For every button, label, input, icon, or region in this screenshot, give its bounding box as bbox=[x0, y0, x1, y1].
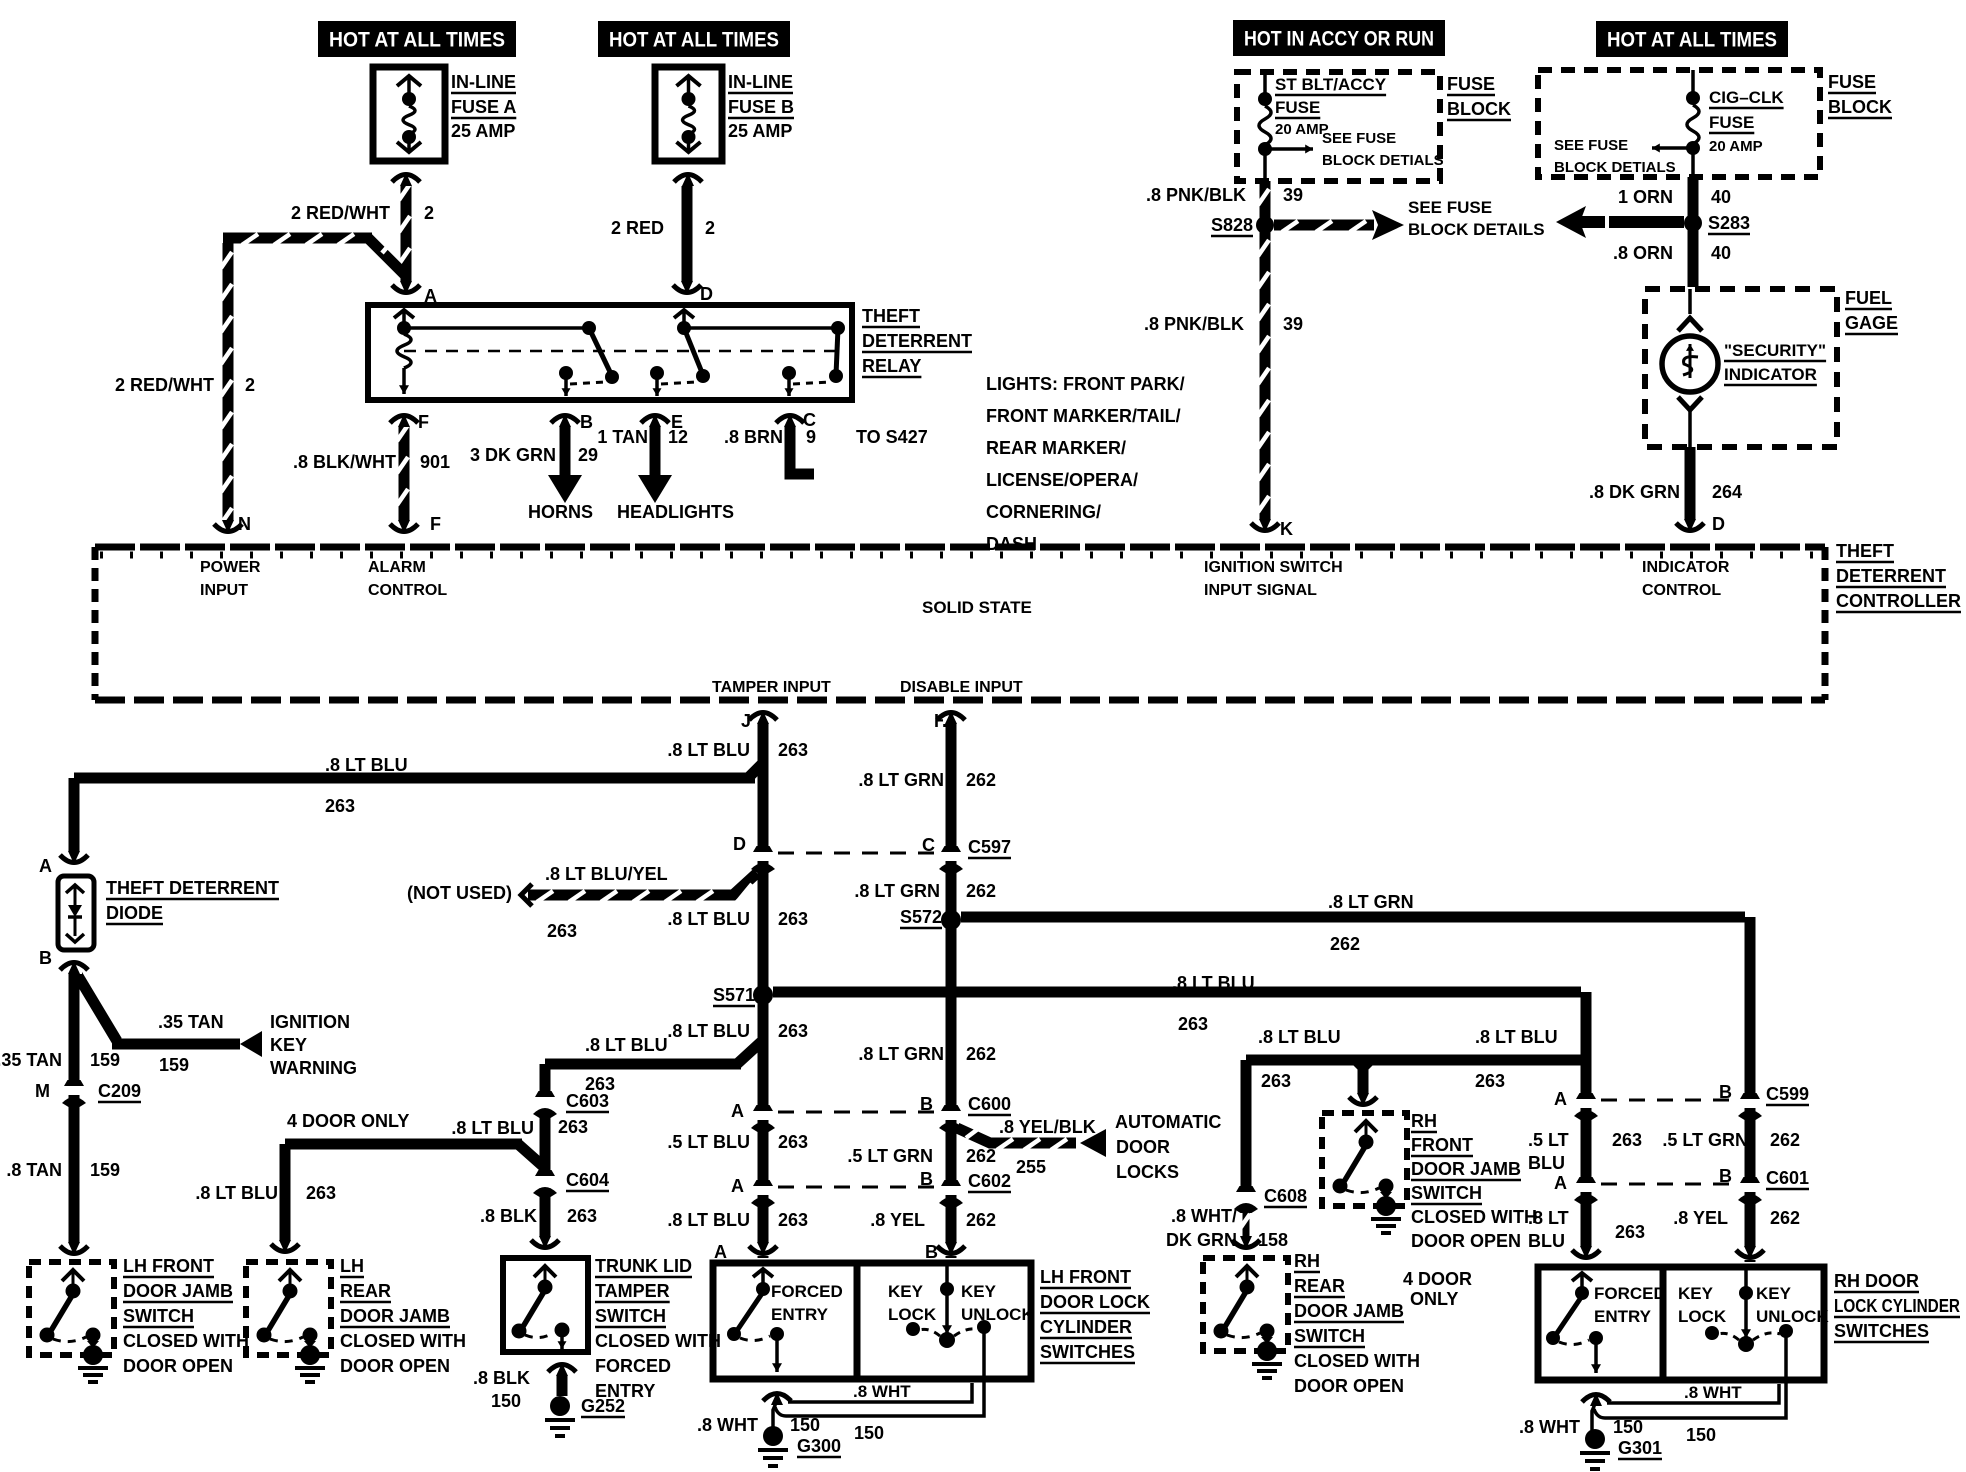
svg-text:263: 263 bbox=[778, 1021, 808, 1041]
svg-text:INDICATOR: INDICATOR bbox=[1724, 365, 1817, 384]
svg-text:262: 262 bbox=[966, 1146, 996, 1166]
svg-text:ALARM: ALARM bbox=[368, 559, 426, 576]
svg-text:262: 262 bbox=[1770, 1208, 1800, 1228]
svg-text:"SECURITY": "SECURITY" bbox=[1724, 341, 1826, 360]
svg-text:DOOR: DOOR bbox=[1116, 1137, 1170, 1157]
svg-text:TRUNK LID: TRUNK LID bbox=[595, 1256, 692, 1276]
svg-text:.8 WHT: .8 WHT bbox=[697, 1415, 758, 1435]
svg-text:RH: RH bbox=[1411, 1111, 1437, 1131]
svg-text:HOT IN ACCY OR RUN: HOT IN ACCY OR RUN bbox=[1244, 28, 1434, 51]
svg-text:IGNITION: IGNITION bbox=[270, 1012, 350, 1032]
svg-text:.8 YEL: .8 YEL bbox=[870, 1210, 925, 1230]
svg-text:263: 263 bbox=[1475, 1071, 1505, 1091]
svg-text:DOOR OPEN: DOOR OPEN bbox=[123, 1356, 233, 1376]
svg-text:SEE FUSE: SEE FUSE bbox=[1322, 130, 1396, 147]
svg-text:.8 LT BLU: .8 LT BLU bbox=[195, 1183, 278, 1203]
svg-text:263: 263 bbox=[778, 1132, 808, 1152]
svg-text:.8 LT BLU: .8 LT BLU bbox=[325, 755, 408, 775]
svg-text:ONLY: ONLY bbox=[1410, 1289, 1458, 1309]
svg-text:TO S427: TO S427 bbox=[856, 427, 928, 447]
svg-text:S571: S571 bbox=[713, 985, 755, 1005]
svg-text:.8 LT GRN: .8 LT GRN bbox=[858, 770, 944, 790]
svg-text:S572: S572 bbox=[900, 907, 942, 927]
svg-text:.8 LT BLU: .8 LT BLU bbox=[585, 1035, 668, 1055]
svg-text:SWITCH: SWITCH bbox=[1294, 1326, 1365, 1346]
svg-text:.8 LT BLU: .8 LT BLU bbox=[1475, 1027, 1558, 1047]
svg-text:DK GRN: DK GRN bbox=[1166, 1230, 1237, 1250]
svg-text:262: 262 bbox=[1330, 934, 1360, 954]
svg-text:3 DK GRN: 3 DK GRN bbox=[470, 445, 556, 465]
svg-text:9: 9 bbox=[806, 427, 816, 447]
svg-text:A: A bbox=[714, 1242, 727, 1262]
svg-text:BLOCK DETIALS: BLOCK DETIALS bbox=[1554, 159, 1676, 176]
svg-text:262: 262 bbox=[1770, 1130, 1800, 1150]
svg-text:.8 ORN: .8 ORN bbox=[1613, 243, 1673, 263]
svg-text:263: 263 bbox=[558, 1117, 588, 1137]
svg-text:REAR: REAR bbox=[1294, 1276, 1345, 1296]
svg-text:2 RED/WHT: 2 RED/WHT bbox=[115, 375, 214, 395]
svg-text:25 AMP: 25 AMP bbox=[451, 121, 515, 141]
svg-text:150: 150 bbox=[491, 1391, 521, 1411]
svg-text:A: A bbox=[731, 1176, 744, 1196]
svg-text:DETERRENT: DETERRENT bbox=[862, 331, 972, 351]
svg-text:DOOR LOCK: DOOR LOCK bbox=[1040, 1292, 1150, 1312]
svg-text:SWITCHES: SWITCHES bbox=[1834, 1321, 1929, 1341]
svg-text:1 ORN: 1 ORN bbox=[1618, 187, 1673, 207]
svg-text:D: D bbox=[1712, 514, 1725, 534]
svg-text:.5 LT GRN: .5 LT GRN bbox=[847, 1146, 933, 1166]
svg-text:C600: C600 bbox=[968, 1094, 1011, 1114]
svg-text:LICENSE/OPERA/: LICENSE/OPERA/ bbox=[986, 470, 1138, 490]
svg-text:159: 159 bbox=[159, 1055, 189, 1075]
svg-text:.8 LT BLU: .8 LT BLU bbox=[451, 1118, 534, 1138]
svg-text:.8 PNK/BLK: .8 PNK/BLK bbox=[1146, 185, 1246, 205]
svg-text:K: K bbox=[1280, 519, 1293, 539]
svg-text:C599: C599 bbox=[1766, 1084, 1809, 1104]
svg-text:150: 150 bbox=[790, 1415, 820, 1435]
svg-text:IN-LINE: IN-LINE bbox=[451, 72, 516, 92]
svg-text:DOOR OPEN: DOOR OPEN bbox=[340, 1356, 450, 1376]
svg-text:29: 29 bbox=[578, 445, 598, 465]
svg-text:CIG–CLK: CIG–CLK bbox=[1709, 88, 1784, 107]
svg-text:263: 263 bbox=[1261, 1071, 1291, 1091]
svg-text:HOT AT ALL TIMES: HOT AT ALL TIMES bbox=[1607, 29, 1777, 52]
svg-text:KEY: KEY bbox=[888, 1282, 924, 1301]
svg-text:CLOSED WITH: CLOSED WITH bbox=[123, 1331, 249, 1351]
svg-text:F: F bbox=[418, 412, 429, 432]
svg-text:262: 262 bbox=[966, 1044, 996, 1064]
svg-text:UNLOCK: UNLOCK bbox=[1756, 1307, 1829, 1326]
svg-text:.8 WHT: .8 WHT bbox=[1684, 1383, 1742, 1402]
svg-text:263: 263 bbox=[547, 921, 577, 941]
svg-text:C602: C602 bbox=[968, 1171, 1011, 1191]
svg-text:CLOSED WITH: CLOSED WITH bbox=[340, 1331, 466, 1351]
svg-text:.8 LT BLU/YEL: .8 LT BLU/YEL bbox=[545, 864, 668, 884]
svg-text:150: 150 bbox=[1686, 1425, 1716, 1445]
svg-text:.8 WHT: .8 WHT bbox=[1519, 1417, 1580, 1437]
svg-text:263: 263 bbox=[778, 909, 808, 929]
svg-text:263: 263 bbox=[1615, 1222, 1645, 1242]
svg-text:M: M bbox=[35, 1081, 50, 1101]
svg-text:25 AMP: 25 AMP bbox=[728, 121, 792, 141]
svg-text:CLOSED WITH: CLOSED WITH bbox=[1411, 1207, 1537, 1227]
svg-text:40: 40 bbox=[1711, 243, 1731, 263]
svg-text:.5 LT GRN: .5 LT GRN bbox=[1662, 1130, 1748, 1150]
svg-text:262: 262 bbox=[966, 881, 996, 901]
svg-text:HOT AT ALL TIMES: HOT AT ALL TIMES bbox=[329, 29, 505, 52]
svg-text:SEE FUSE: SEE FUSE bbox=[1554, 137, 1628, 154]
svg-text:FUSE: FUSE bbox=[1828, 72, 1876, 92]
svg-text:.8 DK GRN: .8 DK GRN bbox=[1589, 482, 1680, 502]
svg-text:A: A bbox=[1554, 1089, 1567, 1109]
svg-text:.8 LT BLU: .8 LT BLU bbox=[667, 1021, 750, 1041]
svg-text:LOCK: LOCK bbox=[1678, 1307, 1727, 1326]
svg-text:B: B bbox=[925, 1242, 938, 1262]
svg-text:S283: S283 bbox=[1708, 213, 1750, 233]
svg-text:.8 LT GRN: .8 LT GRN bbox=[858, 1044, 944, 1064]
svg-text:263: 263 bbox=[1178, 1014, 1208, 1034]
svg-text:A: A bbox=[424, 286, 437, 306]
svg-text:263: 263 bbox=[1612, 1130, 1642, 1150]
svg-text:ENTRY: ENTRY bbox=[771, 1305, 829, 1324]
svg-text:INPUT SIGNAL: INPUT SIGNAL bbox=[1204, 582, 1317, 599]
svg-text:FORCED: FORCED bbox=[595, 1356, 671, 1376]
svg-text:.8 LT GRN: .8 LT GRN bbox=[854, 881, 940, 901]
svg-text:G301: G301 bbox=[1618, 1438, 1662, 1458]
svg-text:150: 150 bbox=[854, 1423, 884, 1443]
svg-text:C601: C601 bbox=[1766, 1168, 1809, 1188]
svg-text:SWITCHES: SWITCHES bbox=[1040, 1342, 1135, 1362]
svg-text:DOOR OPEN: DOOR OPEN bbox=[1411, 1231, 1521, 1251]
svg-text:4 DOOR: 4 DOOR bbox=[1403, 1269, 1472, 1289]
svg-text:.35 TAN: .35 TAN bbox=[0, 1050, 62, 1070]
svg-text:B: B bbox=[1719, 1166, 1732, 1186]
svg-text:FRONT MARKER/TAIL/: FRONT MARKER/TAIL/ bbox=[986, 406, 1181, 426]
svg-text:WARNING: WARNING bbox=[270, 1058, 357, 1078]
svg-text:BLOCK: BLOCK bbox=[1828, 97, 1892, 117]
svg-text:FUEL: FUEL bbox=[1845, 288, 1892, 308]
svg-text:KEY: KEY bbox=[1756, 1284, 1792, 1303]
svg-text:159: 159 bbox=[90, 1050, 120, 1070]
svg-text:150: 150 bbox=[1613, 1417, 1643, 1437]
svg-text:DETERRENT: DETERRENT bbox=[1836, 566, 1946, 586]
svg-text:CLOSED WITH: CLOSED WITH bbox=[1294, 1351, 1420, 1371]
svg-text:ST BLT/ACCY: ST BLT/ACCY bbox=[1275, 75, 1387, 94]
svg-text:.8 WHT/: .8 WHT/ bbox=[1171, 1206, 1237, 1226]
svg-text:.8 LT BLU: .8 LT BLU bbox=[667, 1210, 750, 1230]
svg-text:TAMPER: TAMPER bbox=[595, 1281, 670, 1301]
svg-text:C604: C604 bbox=[566, 1170, 609, 1190]
svg-text:A: A bbox=[731, 1101, 744, 1121]
svg-text:255: 255 bbox=[1016, 1157, 1046, 1177]
svg-text:.8 TAN: .8 TAN bbox=[6, 1160, 62, 1180]
svg-text:LOCK: LOCK bbox=[888, 1305, 937, 1324]
svg-text:ENTRY: ENTRY bbox=[595, 1381, 655, 1401]
svg-text:DISABLE INPUT: DISABLE INPUT bbox=[900, 679, 1023, 696]
svg-text:.8 BRN: .8 BRN bbox=[724, 427, 783, 447]
svg-text:HORNS: HORNS bbox=[528, 502, 593, 522]
svg-text:D: D bbox=[733, 834, 746, 854]
svg-text:SWITCH: SWITCH bbox=[595, 1306, 666, 1326]
svg-text:1 TAN: 1 TAN bbox=[597, 427, 648, 447]
svg-text:4 DOOR ONLY: 4 DOOR ONLY bbox=[287, 1111, 409, 1131]
svg-text:LH: LH bbox=[340, 1256, 364, 1276]
svg-text:LIGHTS: FRONT PARK/: LIGHTS: FRONT PARK/ bbox=[986, 374, 1185, 394]
svg-text:SOLID STATE: SOLID STATE bbox=[922, 598, 1032, 617]
svg-text:BLOCK DETIALS: BLOCK DETIALS bbox=[1322, 152, 1444, 169]
svg-text:.8 WHT: .8 WHT bbox=[853, 1382, 911, 1401]
svg-text:UNLOCK: UNLOCK bbox=[961, 1305, 1034, 1324]
svg-text:.8 LT BLU: .8 LT BLU bbox=[667, 909, 750, 929]
svg-text:FRONT: FRONT bbox=[1411, 1135, 1473, 1155]
svg-text:263: 263 bbox=[306, 1183, 336, 1203]
svg-text:263: 263 bbox=[778, 1210, 808, 1230]
svg-text:DOOR JAMB: DOOR JAMB bbox=[123, 1281, 233, 1301]
svg-text:DOOR OPEN: DOOR OPEN bbox=[1294, 1376, 1404, 1396]
svg-text:F: F bbox=[430, 514, 441, 534]
svg-text:TAMPER INPUT: TAMPER INPUT bbox=[712, 679, 831, 696]
svg-text:CYLINDER: CYLINDER bbox=[1040, 1317, 1132, 1337]
svg-text:B: B bbox=[920, 1094, 933, 1114]
svg-text:263: 263 bbox=[567, 1206, 597, 1226]
svg-text:RH: RH bbox=[1294, 1251, 1320, 1271]
svg-text:901: 901 bbox=[420, 452, 450, 472]
svg-text:C603: C603 bbox=[566, 1091, 609, 1111]
svg-text:2: 2 bbox=[705, 218, 715, 238]
svg-text:.35 TAN: .35 TAN bbox=[158, 1012, 224, 1032]
svg-text:.8 YEL/BLK: .8 YEL/BLK bbox=[999, 1117, 1096, 1137]
svg-text:158: 158 bbox=[1258, 1230, 1288, 1250]
svg-text:20 AMP: 20 AMP bbox=[1709, 138, 1763, 155]
svg-text:KEY: KEY bbox=[961, 1282, 997, 1301]
svg-text:C: C bbox=[922, 835, 935, 855]
svg-text:BLU: BLU bbox=[1528, 1231, 1565, 1251]
svg-text:IN-LINE: IN-LINE bbox=[728, 72, 793, 92]
svg-text:J: J bbox=[741, 711, 751, 731]
svg-text:CONTROL: CONTROL bbox=[1642, 582, 1721, 599]
svg-text:2 RED/WHT: 2 RED/WHT bbox=[291, 203, 390, 223]
svg-text:A: A bbox=[1554, 1173, 1567, 1193]
svg-text:LOCKS: LOCKS bbox=[1116, 1162, 1179, 1182]
svg-text:THEFT: THEFT bbox=[862, 306, 920, 326]
svg-text:40: 40 bbox=[1711, 187, 1731, 207]
svg-text:159: 159 bbox=[90, 1160, 120, 1180]
svg-text:FUSE: FUSE bbox=[1447, 74, 1495, 94]
svg-text:A: A bbox=[39, 856, 52, 876]
svg-text:BLOCK: BLOCK bbox=[1447, 99, 1511, 119]
svg-text:.8 LT BLU: .8 LT BLU bbox=[667, 740, 750, 760]
svg-text:REAR MARKER/: REAR MARKER/ bbox=[986, 438, 1126, 458]
svg-text:.8 LT GRN: .8 LT GRN bbox=[1328, 892, 1414, 912]
svg-text:C608: C608 bbox=[1264, 1186, 1307, 1206]
svg-text:C597: C597 bbox=[968, 837, 1011, 857]
svg-text:CORNERING/: CORNERING/ bbox=[986, 502, 1101, 522]
svg-text:INPUT: INPUT bbox=[200, 582, 248, 599]
svg-text:.8 LT BLU: .8 LT BLU bbox=[1172, 973, 1255, 993]
svg-text:B: B bbox=[920, 1169, 933, 1189]
svg-text:KEY: KEY bbox=[270, 1035, 307, 1055]
svg-text:B: B bbox=[1719, 1082, 1732, 1102]
svg-text:.5 LT BLU: .5 LT BLU bbox=[667, 1132, 750, 1152]
svg-text:LH FRONT: LH FRONT bbox=[123, 1256, 214, 1276]
svg-text:BLOCK DETAILS: BLOCK DETAILS bbox=[1408, 220, 1545, 239]
svg-text:SWITCH: SWITCH bbox=[1411, 1183, 1482, 1203]
svg-text:GAGE: GAGE bbox=[1845, 313, 1898, 333]
svg-text:HOT AT ALL TIMES: HOT AT ALL TIMES bbox=[609, 29, 779, 52]
svg-text:.8 BLK/WHT: .8 BLK/WHT bbox=[293, 452, 396, 472]
svg-text:CONTROL: CONTROL bbox=[368, 582, 447, 599]
svg-text:THEFT DETERRENT: THEFT DETERRENT bbox=[106, 878, 279, 898]
svg-text:DOOR JAMB: DOOR JAMB bbox=[1411, 1159, 1521, 1179]
svg-text:INDICATOR: INDICATOR bbox=[1642, 559, 1730, 576]
svg-text:FUSE: FUSE bbox=[1275, 98, 1320, 117]
svg-text:263: 263 bbox=[325, 796, 355, 816]
svg-text:2: 2 bbox=[245, 375, 255, 395]
svg-text:CONTROLLER: CONTROLLER bbox=[1836, 591, 1961, 611]
svg-text:POWER: POWER bbox=[200, 559, 261, 576]
svg-text:B: B bbox=[580, 412, 593, 432]
svg-text:20 AMP: 20 AMP bbox=[1275, 121, 1329, 138]
svg-text:FUSE: FUSE bbox=[1709, 113, 1754, 132]
svg-text:262: 262 bbox=[966, 1210, 996, 1230]
svg-text:KEY: KEY bbox=[1678, 1284, 1714, 1303]
svg-text:REAR: REAR bbox=[340, 1281, 391, 1301]
svg-text:IGNITION SWITCH: IGNITION SWITCH bbox=[1204, 559, 1343, 576]
svg-text:.8 YEL: .8 YEL bbox=[1673, 1208, 1728, 1228]
svg-text:S828: S828 bbox=[1211, 215, 1253, 235]
svg-text:AUTOMATIC: AUTOMATIC bbox=[1115, 1112, 1221, 1132]
svg-text:RH DOOR: RH DOOR bbox=[1834, 1271, 1919, 1291]
svg-text:SWITCH: SWITCH bbox=[123, 1306, 194, 1326]
svg-text:2 RED: 2 RED bbox=[611, 218, 664, 238]
svg-text:12: 12 bbox=[668, 427, 688, 447]
svg-text:DOOR JAMB: DOOR JAMB bbox=[340, 1306, 450, 1326]
svg-text:(NOT USED): (NOT USED) bbox=[407, 883, 512, 903]
svg-text:39: 39 bbox=[1283, 185, 1303, 205]
svg-text:264: 264 bbox=[1712, 482, 1742, 502]
svg-text:DIODE: DIODE bbox=[106, 903, 163, 923]
svg-text:DOOR JAMB: DOOR JAMB bbox=[1294, 1301, 1404, 1321]
svg-text:ENTRY: ENTRY bbox=[1594, 1307, 1652, 1326]
svg-text:.8 PNK/BLK: .8 PNK/BLK bbox=[1144, 314, 1244, 334]
svg-text:39: 39 bbox=[1283, 314, 1303, 334]
svg-text:FORCED: FORCED bbox=[771, 1282, 843, 1301]
svg-text:G300: G300 bbox=[797, 1436, 841, 1456]
svg-text:LOCK CYLINDER: LOCK CYLINDER bbox=[1834, 1296, 1960, 1316]
svg-text:FUSE B: FUSE B bbox=[728, 97, 794, 117]
svg-text:FORCED: FORCED bbox=[1594, 1284, 1666, 1303]
svg-text:LH FRONT: LH FRONT bbox=[1040, 1267, 1131, 1287]
svg-text:FUSE A: FUSE A bbox=[451, 97, 516, 117]
svg-text:HEADLIGHTS: HEADLIGHTS bbox=[617, 502, 734, 522]
svg-text:.5 LT: .5 LT bbox=[1528, 1130, 1569, 1150]
svg-text:262: 262 bbox=[966, 770, 996, 790]
svg-text:THEFT: THEFT bbox=[1836, 541, 1894, 561]
svg-text:.8 LT BLU: .8 LT BLU bbox=[1258, 1027, 1341, 1047]
svg-text:2: 2 bbox=[424, 203, 434, 223]
svg-text:.8 BLK: .8 BLK bbox=[473, 1368, 530, 1388]
svg-text:C209: C209 bbox=[98, 1081, 141, 1101]
svg-text:263: 263 bbox=[778, 740, 808, 760]
svg-text:.8 BLK: .8 BLK bbox=[480, 1206, 537, 1226]
svg-text:RELAY: RELAY bbox=[862, 356, 921, 376]
svg-text:BLU: BLU bbox=[1528, 1153, 1565, 1173]
svg-text:B: B bbox=[39, 948, 52, 968]
svg-text:CLOSED WITH: CLOSED WITH bbox=[595, 1331, 721, 1351]
svg-text:SEE FUSE: SEE FUSE bbox=[1408, 198, 1492, 217]
